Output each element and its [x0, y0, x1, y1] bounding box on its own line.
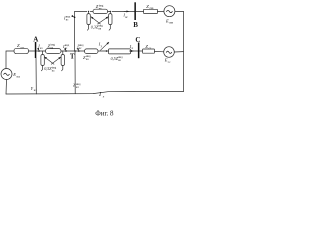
dangling stub lower-right — [62, 66, 63, 71]
wire resistor to bar A — [29, 50, 35, 52]
label I p (before C) — [129, 44, 134, 50]
wire top source to right bus — [175, 11, 183, 91]
wire bar C to resistor — [139, 50, 142, 52]
label E svv — [165, 18, 174, 24]
svg-text:ка: ка — [52, 69, 55, 72]
coupling arrows upper T-network — [91, 17, 108, 24]
svg-text:п: п — [132, 46, 134, 50]
svg-text:п: п — [103, 94, 105, 98]
label E ss — [164, 58, 171, 64]
wire below left source — [5, 80, 8, 95]
label Zimg ka — [48, 43, 56, 50]
dangling stub upper-right — [109, 25, 110, 31]
svg-text:A: A — [33, 35, 38, 43]
svg-text:ка: ка — [118, 59, 121, 62]
label B — [133, 21, 138, 29]
label I ind vs — [76, 44, 84, 51]
resistor Z ind ka (middle) — [85, 49, 99, 54]
label 0,3Zimg vv — [91, 24, 104, 30]
label C — [135, 36, 140, 44]
svg-text:свв: свв — [169, 21, 174, 25]
svg-text:C: C — [135, 36, 140, 44]
label Zimg vv — [96, 3, 104, 10]
junction dot upper-right — [110, 11, 111, 12]
wire to second middle resistor — [98, 50, 109, 52]
label Z ind (on T descender) — [73, 83, 81, 89]
svg-text:кз: кз — [65, 47, 68, 50]
svg-text:B: B — [133, 21, 138, 29]
svg-text:Фиг. 8: Фиг. 8 — [95, 110, 114, 118]
junction dot I ind vs — [78, 50, 80, 52]
label Z svv — [146, 4, 154, 10]
wire bar A to T-network — [36, 50, 45, 52]
label I ind kz — [62, 44, 70, 50]
resistor Zimg ka (series, lower T-network) — [46, 49, 62, 54]
svg-text:ска: ска — [16, 75, 21, 78]
node A bar — [35, 42, 37, 58]
svg-text:вс: вс — [66, 19, 69, 22]
svg-text:T: T — [70, 53, 75, 61]
arrow I u (diagonal) — [101, 42, 109, 50]
svg-text:вс: вс — [79, 47, 82, 50]
riser wire T to upper branch — [75, 11, 87, 51]
node B bar — [134, 2, 136, 20]
label I kz with leader — [37, 44, 43, 51]
svg-text:сс: сс — [149, 46, 152, 50]
wire resistor to source — [158, 10, 164, 12]
shunt resistor upper-right (vertical) — [108, 11, 112, 24]
wire bar B to resistor — [136, 10, 144, 12]
svg-text:ска: ска — [20, 46, 25, 49]
junction dot on riser — [74, 17, 76, 19]
descender wire A to bottom bus — [35, 58, 37, 94]
svg-text:кл: кл — [34, 88, 37, 92]
svg-text:у: у — [101, 44, 103, 48]
resistor Zimg vv (series, upper T-network) — [90, 9, 107, 13]
wire left vertical branch — [6, 51, 14, 69]
label I p (bottom bus) — [98, 91, 105, 98]
shunt resistor lower-right (vertical) — [61, 51, 64, 66]
label Z ss — [145, 44, 151, 50]
AC source E svv (top right) — [164, 6, 175, 17]
dangling stub lower-left — [41, 66, 42, 71]
caption Fig 8 — [95, 110, 114, 118]
shunt resistor lower-left (vertical) — [41, 51, 44, 66]
AC source E ss (middle right) — [164, 47, 175, 58]
wire resistor to source — [155, 50, 164, 52]
label I vs — [122, 13, 128, 19]
resistor Z ska — [14, 48, 29, 53]
label T — [70, 53, 75, 61]
svg-text:ка: ка — [86, 58, 89, 61]
svg-text:кл: кл — [76, 86, 79, 89]
shunt resistor upper-left (vertical) — [87, 11, 90, 24]
wire T-network to node T — [61, 50, 85, 52]
label E ska — [12, 72, 21, 78]
label A — [33, 35, 38, 43]
svg-text:вс: вс — [125, 15, 128, 19]
bottom bus wire — [6, 92, 184, 95]
wire middle source to right bus — [174, 51, 183, 53]
resistor 0,5Z ind ka — [109, 49, 131, 54]
label Z ska — [17, 43, 25, 49]
junction dot upper-left — [88, 11, 89, 12]
svg-text:свв: свв — [149, 6, 154, 10]
resistor Z ss — [143, 49, 155, 53]
svg-text:вв: вв — [98, 28, 101, 31]
svg-text:сс: сс — [168, 60, 171, 64]
wire to node C with arrow — [130, 50, 138, 52]
descender wire T to bottom bus — [74, 51, 76, 94]
resistor Z svv — [144, 9, 158, 13]
label 0,5Z ind ka — [111, 56, 124, 62]
junction dot T — [74, 50, 76, 52]
junction dot I kz — [38, 50, 40, 52]
wire upper T-network to node B — [112, 10, 134, 12]
coupling arrows lower T-network — [45, 57, 61, 64]
label 0,5Zimg ka — [44, 66, 57, 72]
AC source E ska (left) — [1, 69, 12, 80]
svg-text:кз: кз — [40, 46, 43, 50]
dangling stub upper-left — [87, 25, 88, 31]
label I u — [98, 42, 103, 48]
node C bar — [138, 43, 140, 59]
junction dot I ind kz — [65, 50, 67, 52]
label I vs (riser) — [63, 15, 74, 21]
label Y kl — [31, 86, 38, 92]
junction dot I u — [106, 50, 108, 52]
label Z ind ka — [83, 55, 91, 61]
arrow I vs (upper branch) — [124, 10, 129, 12]
